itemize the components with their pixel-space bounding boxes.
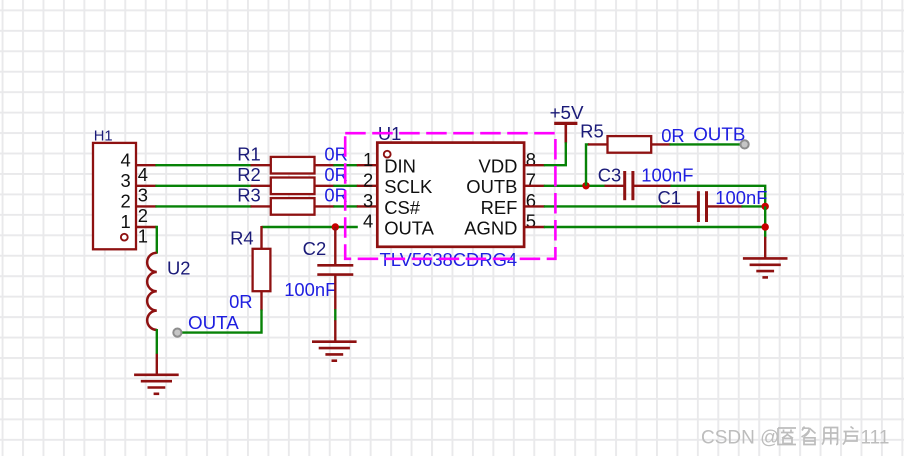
resistor R1 right pin (315, 164, 335, 166)
svg-text:3: 3 (363, 190, 373, 211)
ground under U2 (134, 375, 179, 394)
svg-text:5: 5 (526, 211, 536, 232)
U1 right pin numbers 8-5 (526, 149, 536, 232)
U1 left pin numbers 1-4 (363, 149, 373, 232)
wire R4 to OUTA port (180, 310, 261, 333)
capacitor C1 left pin (661, 205, 698, 207)
capacitor C1 plates (698, 191, 706, 222)
svg-text:AGND: AGND (464, 217, 517, 238)
selection highlight box around U1 (345, 133, 555, 259)
svg-text:111: 111 (861, 428, 890, 449)
svg-text:3: 3 (138, 184, 148, 205)
wire C1 to right rail (742, 205, 766, 207)
svg-text:2: 2 (120, 191, 130, 212)
resistor R2 (271, 178, 315, 195)
resistor R4 (253, 249, 271, 291)
connector H1 box (93, 143, 136, 249)
U1 pin 1 stub (357, 164, 378, 166)
H1 pin 1 indicator circle (121, 234, 128, 241)
U1 right pin names (464, 156, 517, 239)
op-amp / DAC U1 box (377, 143, 524, 247)
capacitor C3 right pin (633, 185, 672, 187)
capacitor C1 right pin (707, 205, 743, 207)
wire junction up to R5 (586, 144, 589, 185)
wire +5V to U1 pin8 (544, 142, 566, 165)
svg-text:CSDN @: CSDN @ (701, 428, 779, 449)
resistor R2 right pin (315, 185, 335, 187)
ground stem right rail (764, 237, 766, 259)
svg-text:4: 4 (138, 164, 148, 185)
svg-text:H1: H1 (94, 129, 113, 145)
U1 left pin names (384, 156, 434, 239)
wire H1 pin4 to R1 (155, 164, 251, 166)
wire H1 pin2 to R3 (155, 205, 251, 207)
svg-text:C1: C1 (657, 187, 681, 208)
svg-text:100nF: 100nF (641, 165, 693, 186)
svg-text:8: 8 (526, 149, 536, 170)
svg-text:R3: R3 (237, 185, 261, 206)
power +5V bar symbol (554, 122, 577, 125)
port OUTB (741, 140, 749, 148)
svg-text:OUTA: OUTA (384, 217, 434, 238)
U1 pin 3 stub (357, 205, 378, 207)
wire R3 to U1 pin3 (333, 205, 357, 207)
svg-text:CS#: CS# (384, 197, 421, 218)
resistor R2 left pin (251, 185, 272, 187)
resistor R5 (608, 136, 652, 153)
resistor R5 right pin (651, 143, 671, 145)
wire U2 to ground (156, 329, 158, 354)
H1 outside pin numbers 4 3 2 1 (138, 164, 148, 247)
svg-text:SCLK: SCLK (384, 176, 433, 197)
H1 pin stubs (136, 165, 156, 227)
wire C3 to right rail (671, 186, 766, 207)
svg-text:0R: 0R (229, 291, 253, 312)
power +5V stem (564, 123, 567, 143)
svg-text:R1: R1 (237, 144, 261, 165)
resistor R3 right pin (315, 205, 335, 207)
svg-text:OUTB: OUTB (466, 176, 517, 197)
svg-text:7: 7 (526, 170, 536, 191)
svg-text:R4: R4 (230, 228, 254, 249)
svg-text:+5V: +5V (550, 102, 584, 123)
svg-text:R2: R2 (237, 164, 261, 185)
ground stem under U2 (156, 354, 158, 376)
wire R2 to U1 pin2 (333, 185, 357, 187)
svg-text:U2: U2 (167, 257, 191, 278)
junction pin7 / R5 (582, 182, 589, 189)
resistor R3 left pin (251, 205, 272, 207)
wire C2 to ground (334, 309, 336, 321)
capacitor C2 top lead (334, 227, 336, 265)
wire H1 pin1 down to U2 (155, 227, 156, 254)
svg-text:4: 4 (120, 149, 130, 170)
wire U1 pin6 to C1 (544, 205, 662, 207)
svg-text:OUTB: OUTB (693, 123, 745, 144)
wire H1 pin3 to R2 (155, 185, 251, 187)
svg-text:DIN: DIN (384, 156, 416, 177)
svg-text:0R: 0R (661, 125, 685, 146)
svg-text:100nF: 100nF (284, 279, 336, 300)
resistor R3 (271, 198, 315, 215)
capacitor C2 bottom lead (334, 275, 336, 311)
svg-text:1: 1 (363, 149, 373, 170)
resistor R5 left pin (588, 143, 608, 145)
resistor R1 left pin (251, 164, 272, 166)
wire U1 pin4 OUTA horizontal (262, 226, 358, 228)
U1 pin 2 stub (357, 185, 378, 187)
svg-text:VDD: VDD (479, 156, 518, 177)
svg-text:REF: REF (481, 197, 518, 218)
inductor U2 coil (147, 253, 157, 330)
svg-text:1: 1 (138, 226, 148, 247)
svg-text:C2: C2 (303, 238, 327, 259)
capacitor C2 plates (317, 265, 353, 274)
wire R5 to OUTB port (670, 143, 742, 145)
ground stem under C2 (334, 320, 336, 342)
right rail vertical (764, 206, 766, 237)
wire R1 to U1 pin1 (333, 164, 357, 166)
svg-text:2: 2 (138, 205, 148, 226)
svg-text:R5: R5 (580, 121, 604, 142)
resistor R1 (271, 157, 315, 174)
svg-text:C3: C3 (598, 165, 622, 186)
svg-text:OUTA: OUTA (188, 312, 239, 333)
ground under C2 (312, 342, 357, 361)
svg-text:1: 1 (120, 211, 130, 232)
junction right rail pin6 (762, 203, 769, 210)
capacitor C3 plates (625, 171, 633, 200)
port OUTA (173, 329, 181, 337)
resistor R4 bottom pin (260, 291, 262, 311)
wire U1 pin7 to junction and C3 (544, 185, 606, 187)
capacitor C3 left pin (605, 185, 625, 187)
svg-text:2: 2 (363, 170, 373, 191)
svg-text:3: 3 (120, 170, 130, 191)
wire U1 pin5 to right rail (544, 226, 765, 228)
svg-text:4: 4 (363, 211, 373, 232)
svg-text:100nF: 100nF (715, 187, 767, 208)
ground right rail (743, 258, 788, 277)
svg-text:6: 6 (526, 190, 536, 211)
resistor R4 top pin (260, 226, 262, 250)
junction right rail pin5 (762, 223, 769, 230)
watermark CJK glyphs (drawn) (778, 427, 859, 445)
U1 right pin stubs 8-5 (524, 165, 545, 227)
junction on OUTA wire at C2 (332, 223, 339, 230)
U1 pin 1 indicator circle (384, 151, 391, 158)
H1 inside pin names 4 3 2 1 (120, 149, 130, 232)
